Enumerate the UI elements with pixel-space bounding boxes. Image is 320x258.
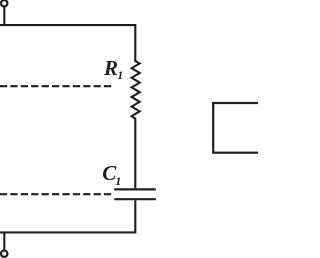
svg-text:1: 1 bbox=[115, 174, 121, 188]
svg-text:1: 1 bbox=[117, 68, 123, 82]
svg-text:R: R bbox=[103, 56, 118, 80]
